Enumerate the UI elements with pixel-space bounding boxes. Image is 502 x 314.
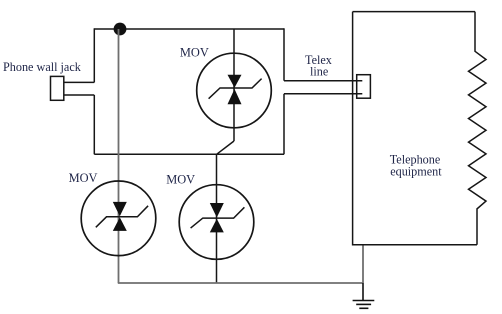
svg-text:line: line bbox=[310, 65, 328, 79]
ground bbox=[353, 283, 375, 308]
telephone equipment box bbox=[353, 12, 477, 245]
svg-text:MOV: MOV bbox=[69, 171, 98, 185]
svg-text:equipment: equipment bbox=[390, 165, 442, 179]
wire: surge box left edge upper bbox=[93, 28, 95, 82]
wire: U1 top lead bbox=[233, 29, 235, 141]
U2 top triangle bbox=[113, 202, 127, 216]
wire: ground bus (gray) bbox=[118, 282, 363, 284]
telex jack connector bbox=[357, 75, 371, 99]
U1 top triangle bbox=[228, 75, 242, 88]
junction dot node A bbox=[114, 23, 127, 36]
U2 bottom triangle bbox=[113, 217, 127, 231]
ground stem bbox=[362, 283, 364, 301]
wire: equipment ground drop (gray) bbox=[362, 245, 364, 283]
ground bar 1 bbox=[353, 300, 375, 302]
phone wall jack connector bbox=[51, 76, 64, 100]
wire: surge box bottom bbox=[94, 153, 284, 155]
U3 circle bbox=[179, 185, 254, 260]
varistor U1 (top MOV) bbox=[180, 29, 271, 141]
wire: top bus bbox=[94, 28, 284, 30]
ground bar 2 bbox=[356, 303, 371, 305]
U3 varistor stroke bbox=[191, 207, 245, 228]
wire: phone jack lower lead bbox=[64, 94, 95, 96]
wire: phone jack upper lead bbox=[64, 81, 95, 83]
varistor U3 (bottom-middle MOV) bbox=[166, 154, 254, 283]
wire: U3 vertical lead node B to ground bus bbox=[216, 154, 218, 283]
wire: surge box right edge upper bbox=[283, 28, 285, 80]
wire: telex upper lead bbox=[284, 80, 362, 82]
U3 top triangle bbox=[210, 203, 224, 218]
U1 bottom triangle bbox=[228, 89, 242, 104]
wire: surge box right edge lower bbox=[283, 94, 285, 155]
U2 circle bbox=[81, 181, 156, 256]
svg-text:MOV: MOV bbox=[180, 46, 209, 60]
U3 bottom triangle bbox=[210, 219, 224, 233]
wire: U2 vertical lead from node A to ground bus (gray) bbox=[118, 29, 120, 283]
U1 circle bbox=[197, 53, 272, 128]
U2 varistor stroke bbox=[96, 206, 148, 228]
svg-text:MOV: MOV bbox=[166, 173, 195, 187]
resistor R1 (right edge of equipment box) bbox=[469, 12, 487, 245]
varistor U2 (bottom-left MOV) bbox=[69, 29, 156, 283]
svg-text:Phone wall jack: Phone wall jack bbox=[3, 60, 82, 74]
ground bar 3 bbox=[359, 307, 368, 309]
wire: U1 to node B diagonal bbox=[217, 141, 234, 154]
U1 varistor stroke bbox=[209, 79, 262, 99]
wire: telex lower lead bbox=[284, 93, 362, 95]
wire: surge box left edge lower bbox=[93, 95, 95, 154]
